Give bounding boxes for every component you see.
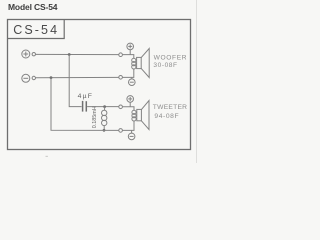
wire top (+) run <box>36 53 119 55</box>
node junction minus <box>50 76 53 79</box>
inductor L1 0.185mH <box>102 107 107 131</box>
wire minus down to bottom run <box>51 78 119 131</box>
tweeter terminals <box>119 105 123 132</box>
paper background <box>0 0 200 163</box>
wire bottom (-) run <box>36 76 119 78</box>
svg-text:30-08F: 30-08F <box>153 62 177 69</box>
woofer speaker SP1 <box>137 49 150 78</box>
tweeter minus mark <box>128 131 135 140</box>
svg-text:Model CS-54: Model CS-54 <box>8 2 58 12</box>
tweeter plus mark <box>127 96 134 107</box>
woofer voice coil <box>132 58 136 69</box>
woofer plus mark <box>127 43 134 54</box>
wire capacitor to tweeter <box>87 106 119 108</box>
svg-text:94-08F: 94-08F <box>154 113 179 120</box>
node junction inductor bottom <box>103 129 106 132</box>
svg-text:WOOFER: WOOFER <box>154 55 188 62</box>
scan speck <box>46 156 48 157</box>
svg-text:TWEETER: TWEETER <box>153 104 187 111</box>
schematic frame <box>8 20 191 150</box>
woofer minus mark <box>129 77 136 85</box>
node junction inductor top <box>103 105 106 108</box>
input terminal - <box>22 74 36 82</box>
svg-text:4µF: 4µF <box>78 93 93 100</box>
label box CS-54 <box>8 20 65 39</box>
tweeter voice coil <box>132 110 136 121</box>
woofer terminals <box>119 53 123 79</box>
node junction top <box>68 53 71 56</box>
svg-text:CS-54: CS-54 <box>13 23 59 37</box>
svg-text:0.185mH: 0.185mH <box>92 106 98 128</box>
capacitor C1 4uF <box>83 101 87 112</box>
tweeter voice-coil wiring <box>122 107 134 111</box>
wire vertical to capacitor <box>69 55 81 107</box>
tweeter speaker SP2 <box>137 101 149 130</box>
input terminal + <box>22 50 36 58</box>
woofer voice-coil wiring <box>122 55 133 59</box>
scan artifact right edge <box>196 0 198 163</box>
